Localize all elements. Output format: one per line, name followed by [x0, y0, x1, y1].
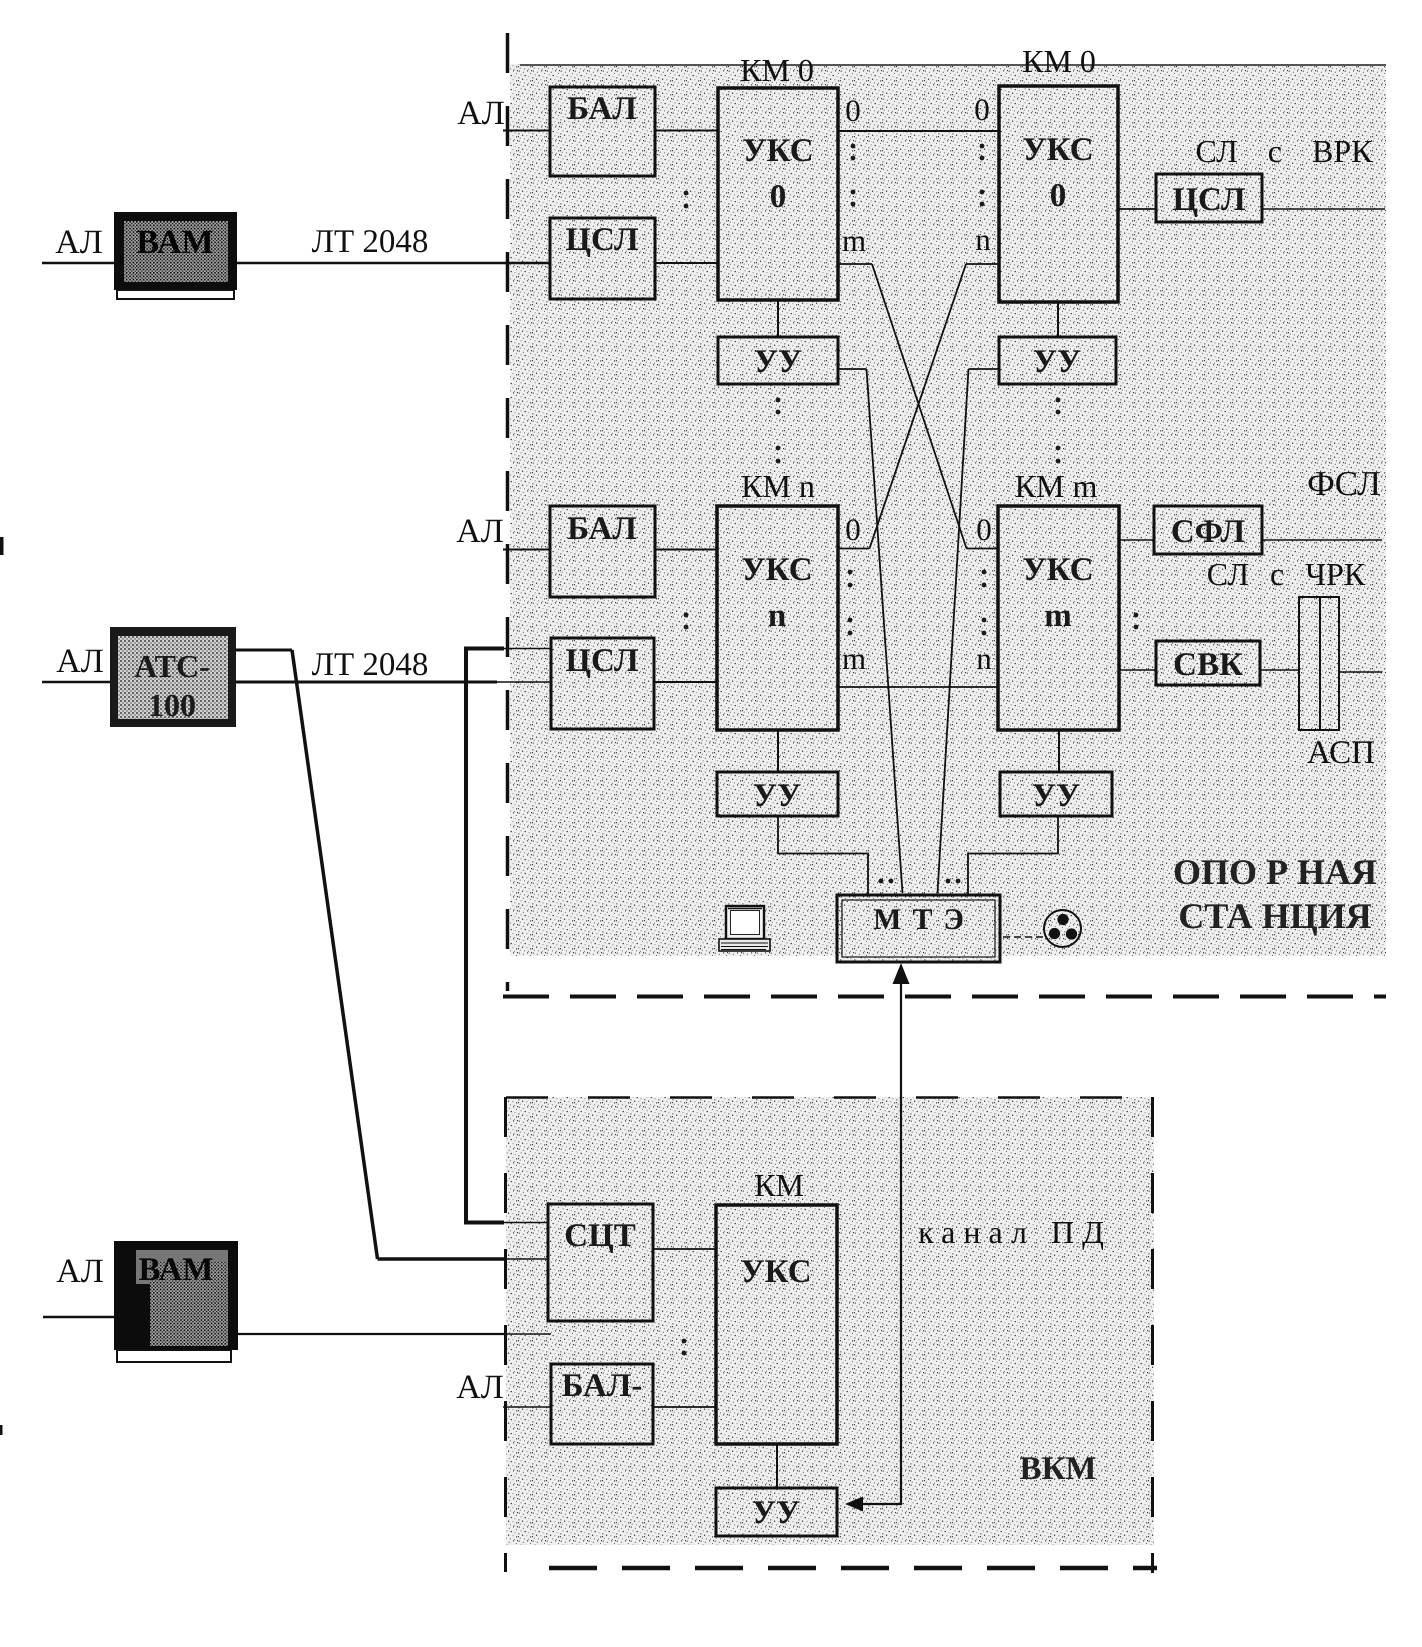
- wire ВАМ bottom output: [238, 1333, 551, 1335]
- wire УУ row1 left exit: [838, 368, 867, 370]
- block ВАМ bottom: [114, 1241, 238, 1362]
- svg-text:УУ: УУ: [753, 778, 801, 814]
- wire БАЛ row2 to УКС n: [655, 549, 717, 551]
- block СЦТ: [548, 1204, 653, 1321]
- wire АТС upper exit: [236, 649, 292, 652]
- svg-text:КМ 0: КМ 0: [1022, 43, 1096, 79]
- svg-text:БАЛ: БАЛ: [567, 511, 637, 547]
- wire diagonal АТС to СЦТ: [292, 650, 378, 1259]
- label КМ 0 right: [1022, 43, 1096, 79]
- block УКС m: [998, 506, 1119, 730]
- block ВАМ top: [114, 212, 237, 299]
- svg-text:КМ n: КМ n: [741, 468, 815, 504]
- wire УКСm to СВК: [1119, 669, 1156, 671]
- label ФСЛ: [1307, 464, 1381, 503]
- port label n УКСm: [976, 641, 992, 676]
- wire АСП to СЛ с ЧРК out: [1339, 671, 1382, 673]
- block УКС 0 left: [718, 88, 838, 300]
- block ЦСЛ row2: [551, 638, 654, 729]
- svg-text:КМ m: КМ m: [1015, 468, 1098, 504]
- wire УКС0 port m stub: [838, 263, 872, 265]
- wire УКСm port 0 stub: [967, 548, 1000, 550]
- svg-text:АЛ: АЛ: [456, 1369, 504, 1406]
- svg-text:СЦТ: СЦТ: [564, 1218, 636, 1254]
- dots column БАЛ-ЦСЛ row1: [684, 191, 689, 209]
- label СТАНЦИЯ: [1178, 896, 1371, 936]
- svg-text:УКС: УКС: [1022, 132, 1093, 168]
- block СФЛ: [1154, 506, 1262, 554]
- svg-text:0: 0: [845, 512, 861, 547]
- grey region ВКМ: [506, 1097, 1154, 1545]
- svg-text:СЛ с ЧРК: СЛ с ЧРК: [1207, 556, 1366, 592]
- dots column БАЛ-ЦСЛ row2: [684, 613, 689, 630]
- svg-text:0: 0: [845, 93, 861, 128]
- svg-text:СФЛ: СФЛ: [1171, 514, 1246, 550]
- svg-text:ЦСЛ: ЦСЛ: [565, 643, 639, 679]
- svg-text:БАЛ-: БАЛ-: [562, 1368, 643, 1404]
- dots column УКС0 ports: [851, 144, 856, 207]
- wire УКСn to УУ row2 left: [777, 730, 779, 772]
- wire УКС0-right to УУ row1 right: [1057, 302, 1059, 337]
- wire ЛТ 2048 АТС to ЦСЛ row2: [236, 681, 551, 684]
- grey region ОПОРНАЯ СТАНЦИЯ: [510, 64, 1386, 956]
- svg-text:УУ: УУ: [754, 344, 802, 380]
- svg-text:ЛТ 2048: ЛТ 2048: [312, 647, 429, 683]
- wire АТС diagonal end to СЦТ: [378, 1257, 550, 1261]
- block УКС ВКМ: [716, 1205, 837, 1444]
- scan artifact left edge lower: [0, 1425, 3, 1435]
- icon computer terminal: [719, 906, 770, 951]
- svg-text:АЛ: АЛ: [456, 513, 504, 550]
- svg-text:100: 100: [148, 687, 196, 723]
- svg-text:УУ: УУ: [1032, 778, 1080, 814]
- svg-text:СЛ с ВРК: СЛ с ВРК: [1196, 133, 1374, 169]
- wire УКСn port m to УКСm port n: [838, 686, 998, 688]
- dots column УКСm ports: [982, 570, 987, 636]
- dashed border of ВКМ top: [506, 1096, 1154, 1099]
- wire trunk top corner to ЦСЛ row2: [464, 647, 551, 651]
- label АЛ at БАЛ row2: [456, 513, 504, 550]
- svg-text:ВАМ: ВАМ: [136, 224, 213, 261]
- wire УКС0 to УУ row1 left: [777, 300, 779, 337]
- wire trunk vertical ЦСЛ row2 to СЦТ: [464, 647, 468, 1223]
- label СЛ с ВРК: [1196, 133, 1374, 169]
- wire СЦТ to УКС ВКМ: [653, 1248, 716, 1250]
- wire АЛ to ВАМ bottom: [43, 1316, 114, 1319]
- wire ЦСЛ row1 to УКС 0: [655, 262, 718, 264]
- label КМ m: [1015, 468, 1098, 504]
- port label m УКСn: [842, 641, 866, 676]
- svg-text:m: m: [1044, 598, 1072, 634]
- svg-text:УКС: УКС: [1022, 552, 1093, 588]
- wire ЦСЛ right to СЛ с ВРК: [1262, 208, 1385, 210]
- svg-text:ЛТ 2048: ЛТ 2048: [312, 224, 429, 260]
- port label n УКС0 right: [975, 222, 991, 257]
- svg-text:УУ: УУ: [752, 1495, 800, 1531]
- dots above МТЭ left: [879, 879, 894, 884]
- svg-text:ВАМ: ВАМ: [139, 1252, 214, 1288]
- svg-text:АЛ: АЛ: [56, 1253, 104, 1290]
- wire СВК to АСП: [1260, 669, 1299, 671]
- svg-text:АЛ: АЛ: [56, 643, 104, 680]
- svg-text:ЦСЛ: ЦСЛ: [565, 222, 639, 258]
- wire trunk bottom corner to СЦТ: [464, 1221, 548, 1225]
- block БАЛ-: [551, 1364, 653, 1444]
- svg-text:0: 0: [770, 179, 787, 215]
- block УУ row1 left: [718, 337, 838, 384]
- wire АЛ to ВАМ top: [42, 262, 114, 265]
- label канал ПД: [918, 1214, 1112, 1250]
- label АЛ row1: [55, 224, 103, 261]
- port label 0 УКС0 right: [974, 92, 990, 127]
- wire УУ row2 right to МТЭ: [968, 816, 1058, 895]
- dots right of УКСm: [1134, 613, 1139, 630]
- wire СФЛ to ФСЛ line: [1262, 539, 1382, 541]
- dots above МТЭ right: [946, 879, 961, 884]
- wire УКС ВКМ to УУ ВКМ: [776, 1444, 778, 1488]
- wire МТЭ to fan dashes: [1003, 936, 1044, 938]
- svg-text:канал ПД: канал ПД: [918, 1214, 1112, 1250]
- wire УКС0-right to ЦСЛ right: [1118, 208, 1156, 210]
- wire УКСm to СФЛ: [1119, 539, 1154, 541]
- svg-text:СТА НЦИЯ: СТА НЦИЯ: [1178, 896, 1371, 936]
- block ЦСЛ right: [1156, 174, 1262, 222]
- svg-text:n: n: [976, 641, 992, 676]
- svg-text:АСП: АСП: [1307, 735, 1375, 771]
- wire diagonal n to УКСn port 0: [870, 264, 967, 549]
- svg-text:АТС-: АТС-: [134, 648, 209, 684]
- dashed left border of опорная станция: [506, 33, 510, 991]
- block СВК: [1156, 641, 1260, 685]
- label АЛ row3: [56, 1253, 104, 1290]
- block БАЛ row2: [550, 506, 655, 597]
- label ОПОРНАЯ: [1173, 852, 1377, 892]
- label АСП: [1307, 735, 1375, 771]
- label КМ ВКМ: [754, 1167, 804, 1203]
- label АЛ at БАЛ row1: [457, 95, 505, 132]
- svg-text:АЛ: АЛ: [55, 224, 103, 261]
- wire АЛ to БАЛ-: [503, 1406, 551, 1408]
- wire канал ПД with arrows: [845, 963, 910, 1512]
- block ЦСЛ row1: [550, 218, 655, 299]
- dots below УУ row1 right: [1056, 398, 1061, 464]
- wire АЛ to АТС-100: [42, 681, 110, 684]
- label СЛ с ЧРК: [1207, 556, 1366, 592]
- label ЛТ 2048 row1: [312, 224, 429, 260]
- block БАЛ row1: [550, 87, 655, 176]
- svg-text:МТЭ: МТЭ: [873, 903, 975, 936]
- label АЛ row2: [56, 643, 104, 680]
- port label 0 УКСn: [845, 512, 861, 547]
- label АЛ at БАЛ-: [456, 1369, 504, 1406]
- block УУ row2 right: [1000, 772, 1112, 816]
- dashed border of ВКМ left: [504, 1097, 507, 1572]
- svg-text:УУ: УУ: [1033, 344, 1081, 380]
- port label m УКС0: [842, 223, 866, 258]
- wire АЛ to БАЛ row1: [503, 130, 550, 132]
- wire ЛТ 2048 ВАМ to ЦСЛ row1: [237, 262, 550, 265]
- svg-text:m: m: [842, 641, 866, 676]
- dots column УКС0-right ports: [980, 144, 985, 207]
- wire УКС0 port 0 to УКС0 right port 0: [838, 130, 999, 132]
- block МТЭ: [837, 895, 1000, 962]
- dashed separator line between станция and ВКМ: [503, 995, 1386, 999]
- dots column СЦТ-БАЛ ВКМ: [682, 1339, 687, 1356]
- block УКС n: [717, 506, 838, 730]
- svg-text:ОПО Р НАЯ: ОПО Р НАЯ: [1173, 852, 1377, 892]
- dots column УКСn ports: [848, 570, 853, 636]
- svg-text:0: 0: [976, 512, 992, 547]
- dashed border of ВКМ bottom: [549, 1566, 1157, 1571]
- block УУ row2 left: [717, 772, 838, 816]
- block УУ row1 right: [999, 337, 1116, 384]
- svg-text:УКС: УКС: [740, 1254, 811, 1290]
- svg-text:УКС: УКС: [742, 133, 813, 169]
- wire diagonal m to УКСm port 0: [872, 264, 967, 549]
- svg-text:ВКМ: ВКМ: [1019, 1451, 1096, 1487]
- wire УУ row2 left to МТЭ: [778, 816, 868, 895]
- svg-text:n: n: [768, 598, 786, 634]
- wire long УУ row1 left to МТЭ: [867, 369, 903, 893]
- wire УКСm to УУ row2 right: [1058, 730, 1060, 772]
- svg-text:БАЛ: БАЛ: [567, 91, 637, 127]
- label КМ 0 left: [740, 52, 814, 88]
- label ВКМ: [1019, 1451, 1096, 1487]
- wire ЦСЛ row2 to УКС n: [655, 681, 717, 683]
- port label 0 УКС0: [845, 93, 861, 128]
- icon fan: [1044, 910, 1081, 947]
- svg-text:КМ 0: КМ 0: [740, 52, 814, 88]
- svg-text:n: n: [975, 222, 991, 257]
- wire УУ row1 right exit: [969, 368, 1000, 370]
- svg-text:m: m: [842, 223, 866, 258]
- svg-text:ФСЛ: ФСЛ: [1307, 464, 1381, 503]
- svg-text:КМ: КМ: [754, 1167, 804, 1203]
- block УУ ВКМ: [716, 1488, 837, 1536]
- dashed border of ВКМ right: [1151, 1097, 1154, 1573]
- wire long УУ row1 right to МТЭ: [938, 369, 969, 893]
- port label 0 УКСm: [976, 512, 992, 547]
- label КМ n: [741, 468, 815, 504]
- svg-text:СВК: СВК: [1173, 647, 1243, 683]
- svg-text:АЛ: АЛ: [457, 95, 505, 132]
- label ЛТ 2048 row2: [312, 647, 429, 683]
- svg-text:ЦСЛ: ЦСЛ: [1172, 182, 1246, 218]
- wire УКСn port 0 stub: [838, 548, 870, 550]
- svg-text:0: 0: [974, 92, 990, 127]
- svg-text:УКС: УКС: [741, 552, 812, 588]
- wire БАЛ- to УКС ВКМ: [653, 1406, 716, 1408]
- svg-text:0: 0: [1050, 178, 1067, 214]
- wire БАЛ row1 to УКС 0: [655, 130, 718, 132]
- wire АЛ to БАЛ row2: [503, 549, 550, 551]
- wire УКС0-right port n stub: [966, 263, 999, 265]
- dots below УУ row1 left: [776, 398, 781, 464]
- symbol АСП: [1299, 597, 1339, 730]
- block АТС-100: [110, 627, 236, 727]
- scan artifact left edge middle: [0, 537, 4, 555]
- block УКС 0 right: [999, 86, 1118, 302]
